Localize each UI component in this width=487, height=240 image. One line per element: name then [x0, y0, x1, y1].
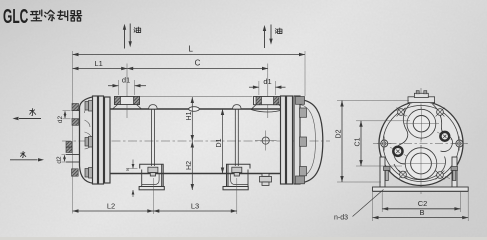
flange bolt holes: [397, 108, 445, 180]
drain plug: [260, 174, 272, 186]
flange-top construction line: [140, 96, 253, 98]
title GLC 型冷却器: [3, 6, 82, 28]
right oil nozzle (d1): [251, 64, 284, 119]
left flange bolts: [85, 101, 92, 179]
svg-text:d1: d1: [263, 77, 271, 86]
dimension d1 right nozzle: [249, 77, 286, 95]
svg-text:GLC: GLC: [3, 6, 28, 28]
right support foot: [223, 105, 250, 190]
water bonnet end cap: [80, 97, 94, 183]
svg-text:L2: L2: [107, 202, 115, 211]
shell bottom line: [110, 173, 281, 175]
foot plate thickness dim: [126, 160, 137, 198]
dimension L1: [73, 59, 128, 70]
bottom water nozzle pipe: [66, 142, 80, 177]
upper water port: [404, 107, 439, 140]
anchor bolts: [384, 167, 458, 181]
dimension H1: [186, 97, 194, 190]
svg-text:d2: d2: [57, 116, 64, 124]
right end cap dome: [300, 100, 323, 184]
dimension d2 bottom: [56, 155, 92, 176]
saddle side plates: [380, 157, 457, 187]
oil flow arrows right: [263, 25, 282, 49]
dimension d1 left nozzle: [108, 76, 146, 96]
dimension D2: [336, 101, 409, 183]
svg-text:d1: d1: [122, 76, 130, 85]
side bolt holes: [377, 137, 466, 151]
left support foot: [139, 105, 164, 190]
end view outer flange circle: [379, 102, 463, 186]
dimension L: [73, 45, 306, 214]
svg-text:B: B: [419, 208, 424, 217]
lower water port: [400, 145, 445, 182]
left oil nozzle (d1): [113, 64, 142, 119]
svg-text:H1: H1: [186, 111, 193, 120]
left flange / tubesheet stack: [93, 96, 111, 184]
end cap bolts: [296, 97, 307, 184]
water inlet arrow 水: [10, 151, 44, 161]
svg-text:d2: d2: [56, 156, 63, 164]
dimension d2 top: [57, 111, 71, 124]
bolt hole callout n-d3: [334, 190, 384, 222]
svg-text:D1: D1: [216, 138, 223, 147]
right flange / tubesheet stack: [281, 96, 301, 184]
lifting lug oval: [189, 107, 200, 112]
dimension C1: [355, 121, 411, 166]
shell centerline: [62, 140, 330, 142]
svg-text:L3: L3: [191, 202, 199, 211]
svg-text:H2: H2: [186, 161, 193, 170]
end view centerlines: [373, 88, 468, 196]
thermometer boss circle: [255, 131, 277, 151]
dimension B: [373, 192, 469, 221]
svg-text:L: L: [188, 45, 193, 54]
pass partition curves: [394, 104, 453, 180]
svg-text:C1: C1: [355, 137, 362, 146]
top water nozzle pipe: [72, 104, 80, 126]
water outlet arrow 水: [13, 108, 42, 120]
svg-text:D2: D2: [336, 129, 343, 138]
base plate: [373, 187, 469, 191]
tie rod circle right (sectioned): [440, 132, 449, 141]
svg-text:n-d3: n-d3: [334, 215, 348, 222]
oil flow arrows left (inlet/outlet): [123, 24, 141, 49]
svg-text:L1: L1: [95, 59, 103, 68]
dimension L2: [73, 178, 154, 214]
end view top boss: [408, 91, 435, 103]
shell top line: [110, 108, 281, 110]
dimension L3: [153, 178, 237, 214]
svg-text:C: C: [195, 59, 201, 68]
dimension C: [127, 59, 268, 71]
dimension D1 shell diameter: [216, 109, 224, 174]
dimension C2: [382, 192, 460, 212]
svg-text:C2: C2: [418, 199, 428, 208]
dimension H2: [186, 142, 194, 191]
tie rod circle left (sectioned): [393, 147, 402, 156]
svg-text:s: s: [126, 167, 129, 173]
